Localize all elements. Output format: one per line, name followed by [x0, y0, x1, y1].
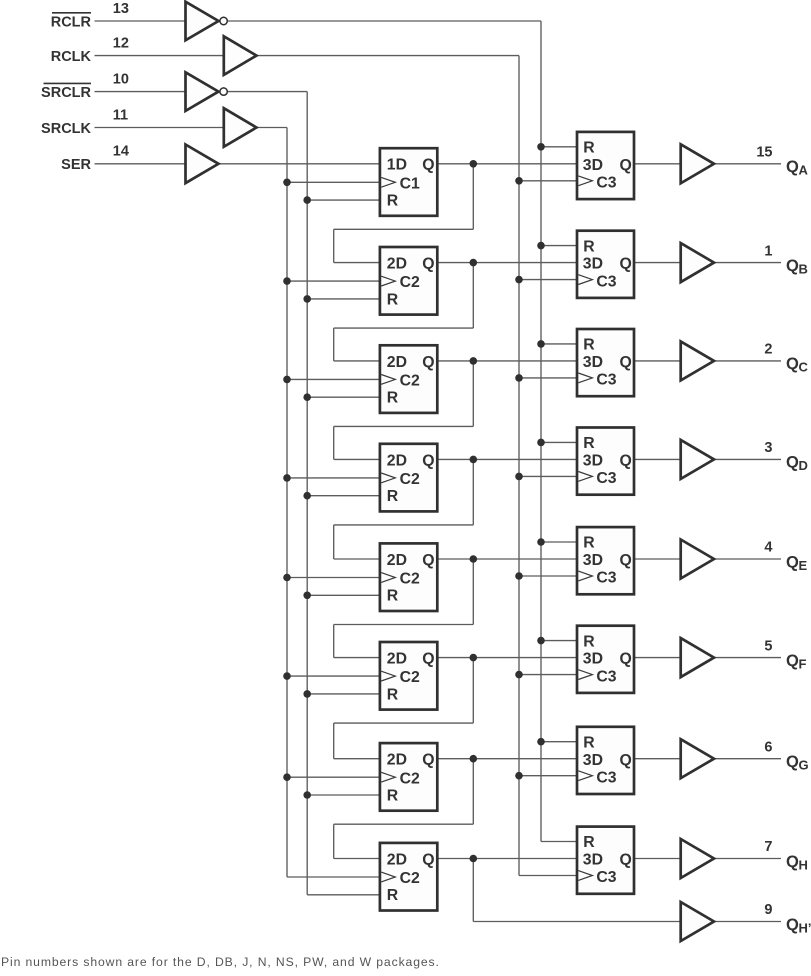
node SER label: [61, 157, 91, 173]
svg-text:Q: Q: [620, 651, 632, 668]
svg-text:Q: Q: [786, 652, 799, 670]
svg-text:3D: 3D: [583, 651, 603, 668]
buffer QH' output driver: [681, 902, 714, 941]
pin 14: [113, 144, 129, 160]
wire SRCLK rail to FF4 C2 input: [287, 477, 380, 479]
wire SRCLR rail to FF1 R input: [307, 199, 380, 201]
wire output QG: [714, 758, 781, 760]
buffer QG output driver: [681, 739, 714, 778]
junction SRCLR rail at FF1: [303, 196, 311, 204]
wire RCLR rail to latch F R input: [541, 640, 577, 642]
svg-text:4: 4: [764, 540, 772, 556]
svg-text:H: H: [799, 857, 808, 872]
wire RCLR rail to latch E R input: [541, 541, 577, 543]
wire latch G Q to output buffer: [634, 758, 681, 760]
svg-text:12: 12: [113, 35, 129, 51]
junction SRCLK rail at FF1: [283, 179, 291, 187]
wire FF2 Q to latch B 3D input: [437, 262, 577, 264]
junction RCLR rail at latch D: [537, 439, 545, 447]
svg-text:1D: 1D: [387, 157, 407, 174]
wire RCLR rail to latch B R input: [541, 245, 577, 247]
junction FF4 Q branch: [470, 456, 478, 464]
wire RCLK rail to latch A C3 input: [519, 180, 577, 182]
svg-text:C2: C2: [400, 471, 420, 488]
svg-text:Q: Q: [422, 851, 434, 868]
wire output QC: [714, 360, 781, 362]
svg-text:9: 9: [764, 902, 772, 918]
wire SRCLK rail to FF8 C2 input: [287, 876, 380, 878]
svg-text:B: B: [799, 261, 808, 276]
wire RCLR net (horizontal + vertical rail): [228, 21, 541, 842]
wire FF8 Q to latch H 3D input: [437, 858, 577, 860]
junction RCLK rail at latch G: [515, 772, 523, 780]
junction SRCLK rail at FF2: [283, 277, 291, 285]
svg-text:3: 3: [764, 440, 772, 456]
latch L2 (3D C3, output B): [577, 231, 634, 298]
svg-text:3D: 3D: [583, 157, 603, 174]
wire output QA: [714, 163, 781, 165]
pin 4: [764, 540, 772, 556]
svg-text:C1: C1: [400, 175, 420, 192]
node QA output label: [786, 158, 809, 178]
buffer QD output driver: [681, 440, 714, 479]
svg-text:R: R: [387, 887, 399, 904]
node QG output label: [786, 753, 809, 773]
flip-flop FF6 (2D C2): [380, 642, 437, 710]
wire latch D Q to output buffer: [634, 458, 681, 460]
node RCLR label: [51, 13, 92, 31]
pin 1: [764, 243, 772, 259]
wire SRCLR rail to FF7 R input: [307, 794, 380, 796]
svg-text:R: R: [387, 787, 399, 804]
svg-text:C: C: [799, 360, 809, 375]
svg-text:Q: Q: [620, 157, 632, 174]
junction RCLR rail at latch C: [537, 340, 545, 348]
wire SRCLK rail to FF2 C2 input: [287, 280, 380, 282]
buffer QF output driver: [681, 638, 714, 677]
svg-text:Q: Q: [786, 916, 799, 934]
wire SRCLR rail to FF3 R input: [307, 396, 380, 398]
latch L5 (3D C3, output E): [577, 527, 634, 594]
wire latch F Q to output buffer: [634, 657, 681, 659]
svg-text:C2: C2: [400, 870, 420, 887]
svg-text:C3: C3: [596, 175, 616, 192]
svg-text:R: R: [583, 834, 595, 851]
wire RCLK rail to latch B C3 input: [519, 279, 577, 281]
wire SRCLR rail to FF6 R input: [307, 693, 380, 695]
latch L7 (3D C3, output G): [577, 727, 634, 794]
svg-text:R: R: [387, 588, 399, 605]
junction SRCLK rail at FF4: [283, 474, 291, 482]
svg-text:2D: 2D: [387, 354, 407, 371]
svg-text:Q: Q: [422, 552, 434, 569]
junction RCLK rail at latch F: [515, 671, 523, 679]
junction RCLR rail at latch G: [537, 738, 545, 746]
junction SRCLR rail at FF5: [303, 592, 311, 600]
svg-text:R: R: [583, 337, 595, 354]
svg-text:3D: 3D: [583, 852, 603, 869]
svg-text:Q: Q: [620, 752, 632, 769]
svg-text:SER: SER: [61, 157, 91, 173]
wire output QE: [714, 558, 781, 560]
junction FF6 Q branch: [470, 654, 478, 662]
svg-text:3D: 3D: [583, 752, 603, 769]
buffer QC output driver: [681, 341, 714, 380]
svg-text:Q: Q: [786, 553, 799, 571]
wire FF4 Q to latch D 3D input: [437, 458, 577, 460]
svg-text:D: D: [799, 458, 808, 473]
svg-text:1: 1: [764, 243, 772, 259]
flip-flop FF1 (1D C1): [380, 148, 437, 216]
svg-text:2D: 2D: [387, 752, 407, 769]
svg-text:7: 7: [764, 839, 772, 855]
svg-text:E: E: [799, 558, 808, 573]
wire SRCLK rail to FF1 C2 input: [287, 181, 380, 183]
wire output QD: [714, 458, 781, 460]
svg-text:SRCLK: SRCLK: [41, 121, 91, 137]
wire RCLK rail to latch F C3 input: [519, 674, 577, 676]
junction SRCLR rail at FF6: [303, 690, 311, 698]
node SRCLK label: [41, 121, 91, 137]
buffer U4 (SRCLK buffer): [224, 108, 257, 147]
wire FF5 Q to FF6 2D (serial chain): [334, 559, 474, 658]
wire output QH': [714, 921, 781, 923]
node SRCLR label: [41, 83, 91, 101]
junction FF8 Q branch: [470, 855, 478, 863]
svg-text:R: R: [583, 535, 595, 552]
svg-text:C2: C2: [400, 571, 420, 588]
svg-text:H’: H’: [799, 920, 811, 935]
pin 9: [764, 902, 772, 918]
wire FF2 Q to FF3 2D (serial chain): [334, 263, 474, 361]
junction RCLK rail at latch B: [515, 276, 523, 284]
node QF output label: [786, 652, 807, 672]
wire RCLK net (horizontal + vertical rail): [257, 56, 520, 876]
svg-text:R: R: [583, 435, 595, 452]
wire SER input stub: [95, 163, 186, 165]
wire FF5 Q to latch E 3D input: [437, 558, 577, 560]
node RCLK label: [51, 49, 92, 65]
wire output QH: [714, 858, 781, 860]
buffer U5 (SER buffer): [186, 145, 219, 184]
wire RCLK rail to latch G C3 input: [519, 775, 577, 777]
svg-text:Q: Q: [620, 256, 632, 273]
junction FF5 Q branch: [470, 555, 478, 563]
svg-text:2D: 2D: [387, 851, 407, 868]
svg-text:13: 13: [113, 1, 129, 17]
svg-text:C3: C3: [596, 273, 616, 290]
latch L6 (3D C3, output F): [577, 626, 634, 693]
junction FF7 Q branch: [470, 755, 478, 763]
flip-flop FF5 (2D C2): [380, 543, 437, 611]
svg-text:Q: Q: [620, 852, 632, 869]
node QH' output label: [786, 916, 811, 936]
buffer QA output driver: [681, 144, 714, 183]
svg-text:G: G: [799, 758, 809, 773]
junction RCLR rail at latch A: [537, 143, 545, 151]
junction SRCLK rail at FF6: [283, 672, 291, 680]
inverter U1 (RCLR buffer): [186, 2, 228, 41]
node QE output label: [786, 553, 808, 573]
svg-text:RCLK: RCLK: [51, 49, 92, 65]
junction RCLK rail at latch D: [515, 473, 523, 481]
svg-text:3D: 3D: [583, 354, 603, 371]
pin 10: [113, 71, 129, 87]
buffer QE output driver: [681, 540, 714, 579]
wire FF7 Q to FF8 2D (serial chain): [334, 759, 474, 859]
svg-text:Q: Q: [786, 454, 799, 472]
svg-text:A: A: [799, 163, 809, 178]
wire FF3 Q to latch C 3D input: [437, 360, 577, 362]
svg-text:C3: C3: [596, 570, 616, 587]
svg-text:3D: 3D: [583, 453, 603, 470]
wire FF8 Q to QH' buffer: [473, 859, 680, 922]
svg-text:Q: Q: [422, 157, 434, 174]
svg-text:R: R: [583, 633, 595, 650]
node QH output label: [786, 853, 808, 873]
junction FF2 Q branch: [470, 259, 478, 267]
wire SRCLK input stub: [95, 127, 224, 129]
wire RCLK rail to latch H C3 input: [519, 875, 577, 877]
pin 12: [113, 35, 129, 51]
wire RCLK input stub: [95, 55, 224, 57]
wire SRCLK net (horizontal + vertical rail): [257, 128, 288, 878]
latch L4 (3D C3, output D): [577, 428, 634, 495]
wire RCLK rail to latch E C3 input: [519, 575, 577, 577]
svg-text:C2: C2: [400, 274, 420, 291]
svg-text:2D: 2D: [387, 552, 407, 569]
svg-text:Q: Q: [786, 257, 799, 275]
wire FF6 Q to FF7 2D (serial chain): [334, 658, 474, 759]
svg-text:R: R: [387, 686, 399, 703]
buffer QH output driver: [681, 839, 714, 878]
junction RCLK rail at latch A: [515, 177, 523, 185]
node QD output label: [786, 454, 808, 474]
svg-text:5: 5: [764, 638, 772, 654]
svg-text:Q: Q: [786, 158, 799, 176]
wire RCLR rail to latch H R input: [541, 841, 577, 843]
svg-text:3D: 3D: [583, 256, 603, 273]
svg-text:2D: 2D: [387, 256, 407, 273]
svg-text:R: R: [387, 193, 399, 210]
svg-text:Q: Q: [786, 753, 799, 771]
node QB output label: [786, 257, 808, 277]
svg-text:C2: C2: [400, 373, 420, 390]
junction RCLK rail at latch C: [515, 374, 523, 382]
wire latch E Q to output buffer: [634, 558, 681, 560]
wire RCLR input stub: [95, 20, 186, 22]
svg-text:6: 6: [764, 739, 772, 755]
wire SRCLR rail to FF4 R input: [307, 495, 380, 497]
latch L8 (3D C3, output H): [577, 827, 634, 894]
junction FF3 Q branch: [470, 357, 478, 365]
wire RCLR rail to latch G R input: [541, 741, 577, 743]
junction FF1 Q branch: [470, 160, 478, 168]
junction RCLK rail at latch E: [515, 572, 523, 580]
note: package pin numbers: [1, 955, 440, 969]
wire SRCLK rail to FF6 C2 input: [287, 675, 380, 677]
svg-text:RCLR: RCLR: [51, 14, 92, 30]
svg-text:R: R: [387, 488, 399, 505]
junction SRCLR rail at FF2: [303, 295, 311, 303]
junction RCLR rail at latch B: [537, 242, 545, 250]
svg-text:Q: Q: [422, 452, 434, 469]
buffer QB output driver: [681, 243, 714, 282]
junction SRCLR rail at FF7: [303, 791, 311, 799]
wire FF1 Q to latch A 3D input: [437, 163, 577, 165]
junction SRCLK rail at FF5: [283, 574, 291, 582]
svg-text:11: 11: [113, 107, 128, 123]
latch L3 (3D C3, output C): [577, 329, 634, 396]
svg-text:14: 14: [113, 144, 129, 160]
pin 5: [764, 638, 772, 654]
svg-text:Q: Q: [422, 256, 434, 273]
svg-text:C3: C3: [596, 372, 616, 389]
svg-text:Pin numbers shown are for the: Pin numbers shown are for the D, DB, J, …: [1, 955, 440, 969]
junction RCLR rail at latch E: [537, 538, 545, 546]
flip-flop FF2 (2D C2): [380, 247, 437, 315]
wire FF6 Q to latch F 3D input: [437, 657, 577, 659]
svg-text:R: R: [387, 390, 399, 407]
svg-text:Q: Q: [786, 355, 799, 373]
junction SRCLK rail at FF3: [283, 376, 291, 384]
wire FF3 Q to FF4 2D (serial chain): [334, 361, 474, 460]
svg-text:C3: C3: [596, 769, 616, 786]
svg-text:C2: C2: [400, 669, 420, 686]
svg-text:R: R: [583, 140, 595, 157]
wire SRCLR rail to FF5 R input: [307, 594, 380, 596]
svg-text:3D: 3D: [583, 552, 603, 569]
svg-text:SRCLR: SRCLR: [41, 85, 91, 101]
wire SER to FF1 1D: [219, 163, 380, 165]
node QC output label: [786, 355, 809, 375]
pin 3: [764, 440, 772, 456]
svg-text:2D: 2D: [387, 651, 407, 668]
svg-text:15: 15: [756, 145, 772, 161]
latch L1 (3D C3, output A): [577, 132, 634, 199]
wire FF7 Q to latch G 3D input: [437, 758, 577, 760]
wire SRCLK rail to FF7 C2 input: [287, 776, 380, 778]
svg-text:C3: C3: [596, 470, 616, 487]
wire SRCLK rail to FF3 C2 input: [287, 378, 380, 380]
wire output QF: [714, 657, 781, 659]
pin 2: [764, 342, 772, 358]
wire latch H Q to output buffer: [634, 858, 681, 860]
svg-text:Q: Q: [620, 354, 632, 371]
wire RCLR rail to latch C R input: [541, 343, 577, 345]
wire RCLK rail to latch D C3 input: [519, 475, 577, 477]
svg-text:C2: C2: [400, 770, 420, 787]
wire latch B Q to output buffer: [634, 262, 681, 264]
pin 7: [764, 839, 772, 855]
flip-flop FF3 (2D C2): [380, 345, 437, 413]
junction SRCLR rail at FF4: [303, 492, 311, 500]
wire RCLR rail to latch A R input: [541, 146, 577, 148]
wire SRCLR net (horizontal + vertical rail): [228, 92, 307, 895]
svg-text:10: 10: [113, 71, 129, 87]
junction SRCLK rail at FF7: [283, 773, 291, 781]
svg-text:Q: Q: [620, 453, 632, 470]
flip-flop FF7 (2D C2): [380, 743, 437, 811]
wire SRCLR input stub: [95, 91, 186, 93]
buffer U2 (RCLK buffer): [224, 36, 257, 75]
pin 11: [113, 107, 128, 123]
svg-text:Q: Q: [786, 853, 799, 871]
svg-text:Q: Q: [422, 752, 434, 769]
flip-flop FF4 (2D C2): [380, 444, 437, 512]
wire SRCLK rail to FF5 C2 input: [287, 577, 380, 579]
junction RCLR rail at latch F: [537, 637, 545, 645]
wire latch A Q to output buffer: [634, 163, 681, 165]
svg-text:R: R: [583, 238, 595, 255]
junction SRCLR rail at FF3: [303, 393, 311, 401]
svg-text:R: R: [583, 734, 595, 751]
pin 6: [764, 739, 772, 755]
svg-text:C3: C3: [596, 869, 616, 886]
inverter U3 (SRCLR buffer): [186, 72, 228, 111]
wire output QB: [714, 262, 781, 264]
wire RCLR rail to latch D R input: [541, 441, 577, 443]
svg-text:Q: Q: [620, 552, 632, 569]
wire FF4 Q to FF5 2D (serial chain): [334, 459, 474, 559]
wire FF1 Q to FF2 2D (serial chain): [334, 164, 474, 263]
svg-text:Q: Q: [422, 651, 434, 668]
svg-text:2D: 2D: [387, 452, 407, 469]
svg-text:C3: C3: [596, 668, 616, 685]
svg-text:F: F: [799, 656, 807, 671]
wire SRCLR rail to FF2 R input: [307, 298, 380, 300]
wire RCLK rail to latch C C3 input: [519, 377, 577, 379]
wire latch C Q to output buffer: [634, 360, 681, 362]
svg-text:Q: Q: [422, 354, 434, 371]
svg-text:R: R: [387, 291, 399, 308]
pin 13: [113, 1, 129, 17]
wire SRCLR rail to FF8 R input: [307, 894, 380, 896]
flip-flop FF8 (2D C2): [380, 843, 437, 911]
svg-text:2: 2: [764, 342, 772, 358]
pin 15: [756, 145, 772, 161]
